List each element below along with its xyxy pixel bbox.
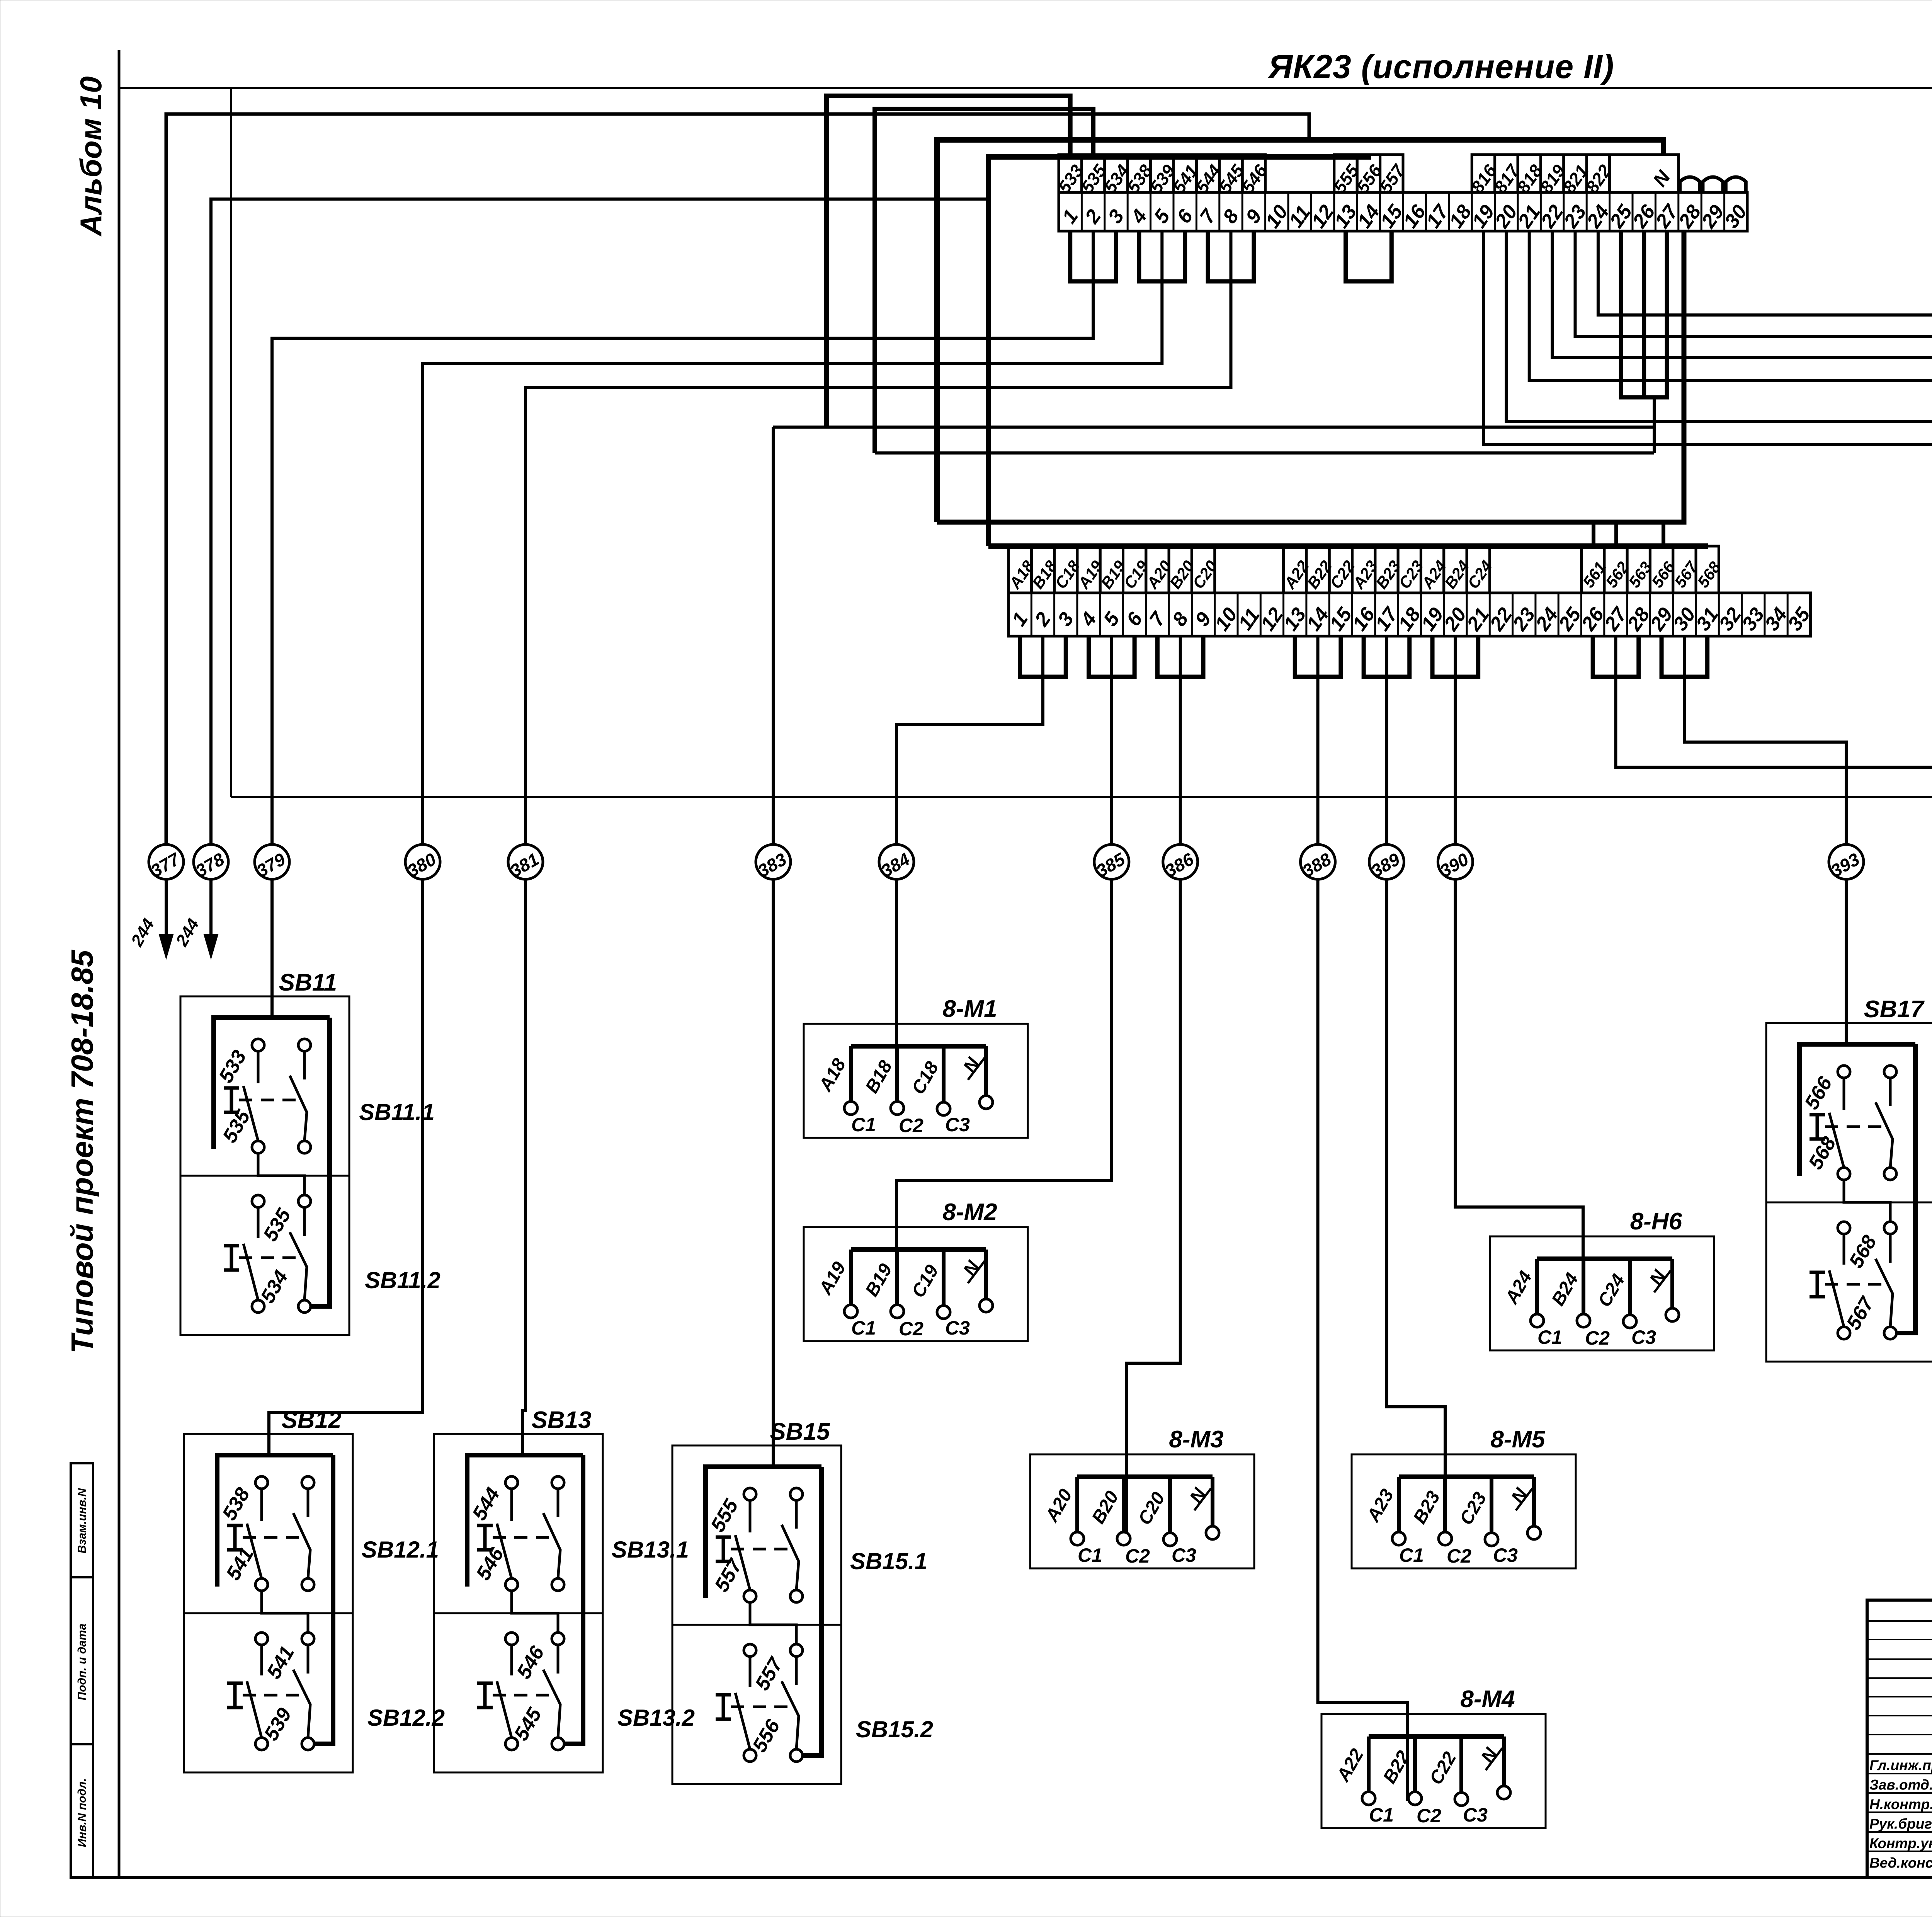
wire 377 riser (166, 114, 1309, 844)
wire label box 535 above terminal 1:2 (1082, 155, 1104, 192)
wire label box 545 above terminal 1:8 (1219, 155, 1242, 192)
wire 383 number circle (756, 844, 791, 879)
wire link SB17.1 to SB17.2 (1844, 1180, 1890, 1222)
motor terminal box 8-M4 (1321, 1714, 1546, 1828)
svg-text:Подп. и дата: Подп. и дата (76, 1624, 88, 1701)
jumper loop under terminals 2:7-9 (1157, 636, 1203, 677)
wire 389 number circle (1369, 844, 1404, 879)
contact SB13.2 NC contact (557, 1645, 560, 1674)
jumper loop under terminals 2:16-18 (1364, 636, 1410, 677)
wire link SB13.1 to SB13.2 (512, 1591, 558, 1633)
wire 384 number circle (879, 844, 914, 879)
wire label box A19 above terminal 2:4 (1077, 546, 1100, 593)
svg-text:C2: C2 (899, 1115, 923, 1136)
wire 381 number circle (508, 844, 543, 879)
wire N-bar to bus D (875, 451, 1654, 455)
feed wire through SB12 (314, 1455, 333, 1744)
svg-text:8-M5: 8-M5 (1490, 1426, 1546, 1453)
svg-text:SB12.1: SB12.1 (362, 1537, 439, 1563)
jumper loop under terminals 2:1-3 (1020, 636, 1066, 677)
wire label box 557 above terminal 1:15 (1380, 155, 1403, 192)
motor terminal box 8-M1 (804, 1024, 1028, 1138)
jumper loop under terminals 1:4-6 (1139, 231, 1185, 281)
wire link SB15.1 to SB15.2 (750, 1602, 796, 1644)
wire label box A20 above terminal 2:7 (1146, 546, 1169, 593)
wire 386 continuation to 8-M3 (1126, 879, 1180, 1540)
contact SB12.2 terminals (255, 1633, 268, 1645)
jumper loop under terminals 2:19-21 (1432, 636, 1478, 677)
jumper loop under terminals 1:13-15 (1346, 231, 1392, 281)
contact SB13.1 NO contact (510, 1489, 513, 1521)
feed wire through SB13 (564, 1455, 583, 1744)
wire label box 562 above terminal 2:27 (1604, 546, 1627, 593)
wire 822 terminal 1:24 to 8-YA36 (1598, 231, 1932, 668)
actuator SB12.2 (227, 1682, 243, 1685)
wire 381 continuation to SB13 (522, 879, 526, 1455)
actuator SB11.1 (224, 1086, 239, 1090)
svg-text:C3: C3 (1463, 1804, 1488, 1826)
pushbutton station SB13 outer box (434, 1434, 603, 1772)
contact block SB15.1 (706, 1467, 821, 1598)
svg-text:SB13: SB13 (531, 1407, 591, 1433)
wire label box 819 above terminal 1:22 (1541, 155, 1563, 192)
wire 378 riser (211, 199, 988, 844)
motor 8-M4 terminals C1 C2 C3 N (1362, 1792, 1375, 1805)
wire link SB12.1 to SB12.2 (262, 1591, 308, 1633)
svg-text:SB11.1: SB11.1 (359, 1099, 435, 1125)
svg-text:Альбом 10: Альбом 10 (74, 76, 108, 237)
svg-text:C3: C3 (1493, 1544, 1518, 1566)
panel ЯК23 enclosure box (119, 87, 1932, 89)
staff signature table (1867, 1600, 1932, 1878)
contact block SB12.1 (217, 1455, 333, 1587)
motor 8-M3 terminals C1 C2 C3 N (1071, 1532, 1084, 1545)
svg-text:Типовой проект 708-18.85: Типовой проект 708-18.85 (65, 949, 99, 1353)
contact SB17.2 terminals (1838, 1222, 1850, 1234)
wire label box 539 above terminal 1:5 (1151, 155, 1173, 192)
contact SB17.2 NO contact (1843, 1234, 1845, 1265)
pushbutton station SB11 outer box (180, 996, 349, 1335)
svg-text:C3: C3 (1631, 1326, 1656, 1348)
feed wire through SB17 (1896, 1044, 1915, 1333)
bus C to label 533 (827, 96, 1070, 427)
contact SB12.2 NO contact (260, 1645, 263, 1675)
contact block SB17.1 (1799, 1044, 1915, 1176)
wire label box B20 above terminal 2:8 (1169, 546, 1192, 593)
bus 1 to strip 2 labels (937, 231, 1684, 522)
wire label box B22 above terminal 2:14 (1306, 546, 1329, 593)
bus 2 to strip 2 label row (988, 543, 1708, 549)
wire 386 number circle (1163, 844, 1198, 879)
wire label box B24 above terminal 2:20 (1444, 546, 1467, 593)
jumper loop under terminals 2:4-6 (1089, 636, 1135, 677)
svg-text:C1: C1 (1399, 1544, 1424, 1566)
contact SB15.1 NC contact (795, 1500, 798, 1529)
feed wire through SB15 (803, 1467, 821, 1755)
svg-text:SB15.1: SB15.1 (850, 1548, 927, 1574)
wire B18 terminal 2:2 to motor 8-M1 (384) (896, 636, 1043, 844)
contact SB17.1 terminals (1838, 1066, 1850, 1078)
terminal strip XT1 (ЯК23) body (1059, 192, 1747, 231)
wire 380 number circle (405, 844, 440, 879)
wire label box 544 above terminal 1:7 (1196, 155, 1219, 192)
contact SB17.2 NC contact (1889, 1234, 1892, 1263)
wire link SB11.1 to SB11.2 (258, 1153, 304, 1195)
wire label box 818 above terminal 1:21 (1518, 155, 1541, 192)
svg-text:8-Н6: 8-Н6 (1630, 1208, 1682, 1235)
svg-text:SB15: SB15 (770, 1418, 830, 1445)
contact SB11.2 terminals (252, 1195, 264, 1207)
pushbutton station SB12 outer box (184, 1434, 353, 1772)
contact SB11.2 NC contact (303, 1207, 306, 1236)
wire 378 exit arrow 244 (209, 879, 213, 947)
wire label box C23 above terminal 2:18 (1398, 546, 1421, 593)
contact SB13.1 terminals (505, 1476, 518, 1489)
wire label box B18 above terminal 2:2 (1031, 546, 1054, 593)
pushbutton station SB17 outer box (1766, 1023, 1932, 1362)
pushbutton station SB15 outer box (672, 1445, 841, 1784)
wire 388 continuation to 8-M4 (1318, 879, 1407, 1801)
terminal strip XT2 body (1009, 593, 1811, 636)
svg-text:8-M3: 8-M3 (1169, 1426, 1223, 1453)
wire B24 terminal 2:20 to motor 8-Н6 (390) (1454, 636, 1457, 844)
svg-text:C2: C2 (899, 1318, 923, 1340)
svg-text:C3: C3 (945, 1317, 970, 1339)
wire B20 terminal 2:8 to motor 8-M3 (386) (1179, 636, 1182, 844)
jumper arcs above terminals 1:28-30 (1680, 177, 1700, 192)
svg-text:C1: C1 (1078, 1544, 1102, 1566)
svg-text:ЯК23 (исполнение II): ЯК23 (исполнение II) (1267, 48, 1614, 85)
actuator SB13.1 (477, 1524, 493, 1527)
svg-text:Инв.N подл.: Инв.N подл. (76, 1778, 88, 1847)
svg-text:8-M2: 8-M2 (942, 1199, 997, 1226)
wire 818 terminal 1:21 to 8-YA33 (1529, 231, 1932, 906)
wire label box B23 above terminal 2:17 (1375, 546, 1398, 593)
svg-text:SB17: SB17 (1864, 996, 1925, 1023)
wire label box A23 above terminal 2:16 (1352, 546, 1375, 593)
wire 816 terminal 1:19 to 8-YA31 (1483, 231, 1932, 1246)
motor 8-M1 terminals C1 C2 C3 N (844, 1102, 857, 1115)
jumper bar under terminals 1:25-27 (N) (1621, 231, 1667, 397)
motor 8-M5 bus bar (1399, 1474, 1534, 1479)
contact SB15.2 terminals (744, 1644, 756, 1657)
wire label box 822 above terminal 1:24 (1587, 155, 1609, 192)
svg-text:Н.контр.: Н.контр. (1869, 1796, 1932, 1812)
contact block SB13.1 (467, 1455, 583, 1587)
svg-text:C1: C1 (1369, 1804, 1394, 1826)
wire 535 from terminal 1:2 to SB11 (379) (272, 231, 1093, 844)
wire label box 546 above terminal 1:9 (1242, 155, 1265, 192)
wire B22 terminal 2:14 to motor 8-M4 (388) (1316, 636, 1320, 844)
svg-text:C1: C1 (851, 1317, 876, 1339)
motor terminal box 8-Н6 (1490, 1236, 1714, 1350)
contact SB11.1 NC contact (303, 1051, 306, 1079)
svg-text:C1: C1 (851, 1114, 876, 1136)
svg-text:SB13.1: SB13.1 (612, 1537, 689, 1563)
wire 380 continuation to SB12 (269, 879, 423, 1455)
svg-text:Контр.укп: Контр.укп (1869, 1835, 1932, 1851)
actuator SB17.2 (1810, 1271, 1825, 1274)
bus D to label 535 (875, 109, 1093, 453)
sheet border frame (118, 50, 121, 1878)
jumper loop under terminals 1:7-9 (1208, 231, 1254, 281)
contact SB15.1 NO contact (749, 1500, 752, 1532)
svg-text:SB11.2: SB11.2 (365, 1267, 440, 1293)
actuator SB13.2 (477, 1682, 493, 1685)
svg-text:Зав.отд.: Зав.отд. (1869, 1777, 1932, 1793)
svg-text:C2: C2 (1585, 1327, 1610, 1349)
svg-text:Вед.констр: Вед.констр (1869, 1855, 1932, 1871)
motor 8-Н6 terminals C1 C2 C3 N (1531, 1314, 1544, 1327)
wire label box N above terminals 1:25-27 (1610, 155, 1679, 192)
wire 389 continuation to 8-M5 (1386, 879, 1445, 1540)
wire label box C19 above terminal 2:6 (1123, 546, 1146, 593)
wire 377 exit arrow 244 (165, 879, 168, 947)
actuator SB15.2 (716, 1693, 731, 1697)
contact SB17.1 NO contact (1843, 1078, 1845, 1110)
wire 817 terminal 1:20 to 8-YA32 (1506, 231, 1932, 1246)
contact SB15.2 NO contact (749, 1657, 752, 1687)
wire label box 817 above terminal 1:20 (1495, 155, 1518, 192)
wire 821 terminal 1:23 to 8-YA35 (1575, 231, 1932, 668)
wire 390 number circle (1438, 844, 1473, 879)
svg-text:SB13.2: SB13.2 (617, 1705, 695, 1731)
wire label box C22 above terminal 2:15 (1329, 546, 1352, 593)
wire label box 567 above terminal 2:30 (1673, 546, 1696, 593)
wire label box A22 above terminal 2:13 (1284, 546, 1306, 593)
contact SB11.1 NO contact (257, 1051, 260, 1083)
actuator SB15.1 (716, 1536, 731, 1539)
wire 562 terminal 2:27 to SB16 (392) (1616, 636, 1932, 844)
wire label box A24 above terminal 2:19 (1421, 546, 1444, 593)
actuator SB11.2 (224, 1244, 239, 1248)
motor terminal box 8-M2 (804, 1227, 1028, 1341)
svg-text:C2: C2 (1417, 1805, 1441, 1827)
bus B above strip 1 (988, 155, 1368, 546)
wire 539 from terminal 1:5 to SB12 (380) (423, 231, 1162, 844)
bottom-left stamp column (71, 1463, 93, 1878)
wire label box 561 above terminal 2:26 (1582, 546, 1604, 593)
contact SB12.1 terminals (255, 1476, 268, 1489)
wire 567 terminal 2:30 to SB17 (393) (1684, 636, 1846, 844)
wire 545 from terminal 1:8 to SB13 (381) (526, 231, 1231, 844)
svg-text:C3: C3 (1172, 1544, 1196, 1566)
contact SB17.1 NC contact (1889, 1078, 1892, 1106)
wire B19 terminal 2:5 to motor 8-M2 (385) (1110, 636, 1113, 844)
svg-text:Рук.бриг.: Рук.бриг. (1869, 1816, 1932, 1832)
svg-text:8-M1: 8-M1 (942, 996, 997, 1022)
wire label box A18 above terminal 2:1 (1009, 546, 1031, 593)
contact SB11.1 terminals (252, 1039, 264, 1051)
wire label box C18 above terminal 2:3 (1054, 546, 1077, 593)
wire 390 continuation to 8-Н6 (1455, 879, 1583, 1314)
wire 385 number circle (1094, 844, 1129, 879)
jumper loop under terminals 2:13-15 (1295, 636, 1341, 677)
svg-text:C3: C3 (945, 1114, 970, 1136)
svg-text:C2: C2 (1447, 1545, 1471, 1567)
bus 1 drops to labels 561,562,566 (1592, 522, 1595, 546)
wire 378 number circle (194, 844, 228, 879)
motor 8-M5 terminals C1 C2 C3 N (1392, 1532, 1405, 1545)
svg-text:Гл.инж.пр: Гл.инж.пр (1869, 1757, 1932, 1773)
actuator SB12.1 (227, 1524, 243, 1527)
motor 8-M1 bus bar (851, 1044, 986, 1049)
svg-text:SB15.2: SB15.2 (856, 1716, 933, 1742)
contact SB11.2 NO contact (257, 1207, 260, 1238)
feed wire through SB11 (311, 1018, 330, 1306)
wire label box C20 above terminal 2:9 (1192, 546, 1214, 593)
motor 8-M4 bus bar (1369, 1734, 1504, 1739)
contact SB12.1 NO contact (260, 1489, 263, 1521)
wire 819 terminal 1:22 to 8-YA34 (1552, 231, 1932, 906)
wire B23 terminal 2:17 to motor 8-M5 (389) (1385, 636, 1388, 844)
wire 379 number circle (255, 844, 289, 879)
wire label box 534 above terminal 1:3 (1105, 155, 1128, 192)
svg-text:8-M4: 8-M4 (1460, 1686, 1515, 1713)
wire 385 continuation to 8-M2 (896, 879, 1112, 1313)
wire label box B19 above terminal 2:5 (1100, 546, 1123, 593)
wire label box C24 above terminal 2:21 (1467, 546, 1490, 593)
wire label box 821 above terminal 1:23 (1564, 155, 1587, 192)
wire label box 533 above terminal 1:1 (1059, 155, 1082, 192)
actuator SB17.1 (1810, 1113, 1825, 1117)
contact SB12.2 NC contact (307, 1645, 310, 1674)
contact SB13.1 NC contact (557, 1489, 560, 1517)
svg-text:SB11: SB11 (279, 969, 337, 996)
contact SB12.1 NC contact (307, 1489, 310, 1517)
wire label box 816 above terminal 1:19 (1472, 155, 1495, 192)
jumper loop under terminals 2:26-28 (1593, 636, 1639, 677)
motor terminal box 8-M3 (1030, 1454, 1254, 1568)
wire label box 541 above terminal 1:6 (1173, 155, 1196, 192)
svg-text:C2: C2 (1125, 1545, 1150, 1567)
contact SB15.1 terminals (744, 1488, 756, 1500)
contact SB15.2 NC contact (795, 1657, 798, 1685)
wire 393 number circle (1829, 844, 1864, 879)
contact SB13.2 NO contact (510, 1645, 513, 1675)
wire 388 number circle (1301, 844, 1335, 879)
contact block SB11.1 (214, 1018, 330, 1149)
wire label box 556 above terminal 1:14 (1357, 155, 1380, 192)
jumper loop under terminals 2:29-31 (1662, 636, 1708, 677)
svg-text:C1: C1 (1537, 1326, 1562, 1348)
motor terminal box 8-M5 (1352, 1454, 1576, 1568)
wire label box 568 above terminal 2:31 (1696, 546, 1719, 593)
motor 8-Н6 bus bar (1537, 1256, 1672, 1261)
wire label box 563 above terminal 2:28 (1627, 546, 1650, 593)
wire 377 number circle (149, 844, 184, 879)
wire 556 from N bar to SB15 (383) (773, 397, 1654, 427)
svg-text:SB12: SB12 (281, 1407, 341, 1433)
wire label box 555 above terminal 1:13 (1334, 155, 1357, 192)
wire label box 538 above terminal 1:4 (1128, 155, 1150, 192)
wire label box 566 above terminal 2:29 (1650, 546, 1673, 593)
bus A above strip 1 (937, 140, 1663, 522)
contact SB13.2 terminals (505, 1633, 518, 1645)
motor 8-M3 bus bar (1077, 1474, 1213, 1479)
svg-text:Взам.инв.N: Взам.инв.N (76, 1488, 88, 1553)
motor 8-M2 bus bar (851, 1247, 986, 1252)
jumper loop under terminals 1:1-3 (1070, 231, 1116, 281)
motor 8-M2 terminals C1 C2 C3 N (844, 1305, 857, 1318)
